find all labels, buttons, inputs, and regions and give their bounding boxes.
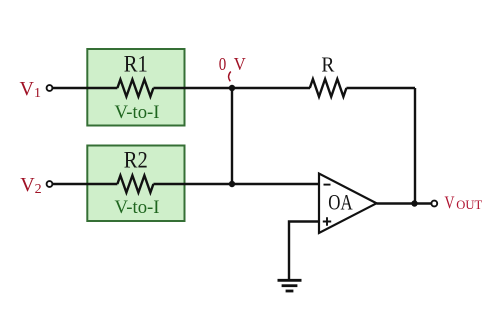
wire V1 input xyxy=(53,87,117,89)
wire R to right corner xyxy=(346,87,415,89)
svg-text:V: V xyxy=(445,193,455,213)
svg-text:R1: R1 xyxy=(124,51,148,76)
wire node 0V vertical xyxy=(231,88,233,184)
op-amp plus pin mark xyxy=(323,217,331,225)
wire op-amp noninverting to ground xyxy=(289,222,319,280)
wire output xyxy=(377,202,432,204)
V-to-I converter box 2 xyxy=(87,146,184,222)
svg-text:OA: OA xyxy=(328,190,352,215)
node junction 0V xyxy=(229,85,235,91)
resistor R2 xyxy=(117,176,153,193)
svg-text:V: V xyxy=(234,54,246,74)
node pointer curve xyxy=(229,72,231,82)
svg-text:R2: R2 xyxy=(124,148,148,173)
op-amp OA xyxy=(319,174,377,234)
resistor R xyxy=(310,79,347,97)
wire V2 input xyxy=(53,183,117,185)
V-to-I converter box 1 xyxy=(87,49,184,126)
terminal V2 xyxy=(47,181,53,187)
svg-text:OUT: OUT xyxy=(456,198,482,212)
svg-text:V-to-I: V-to-I xyxy=(115,198,160,218)
node junction output xyxy=(411,200,417,206)
terminal V1 xyxy=(47,85,53,91)
svg-text:0: 0 xyxy=(219,54,227,74)
ground xyxy=(278,280,302,291)
svg-text:V-to-I: V-to-I xyxy=(115,103,160,123)
resistor R1 xyxy=(117,80,153,97)
wire R2 to op-amp inverting input xyxy=(153,183,319,185)
wire feedback vertical xyxy=(414,88,416,204)
svg-text:R: R xyxy=(321,52,335,76)
op-amp minus pin mark xyxy=(324,184,331,186)
terminal Vout xyxy=(431,201,437,207)
node junction inverting input xyxy=(229,181,235,187)
wire R1 to node and to R xyxy=(153,87,310,89)
